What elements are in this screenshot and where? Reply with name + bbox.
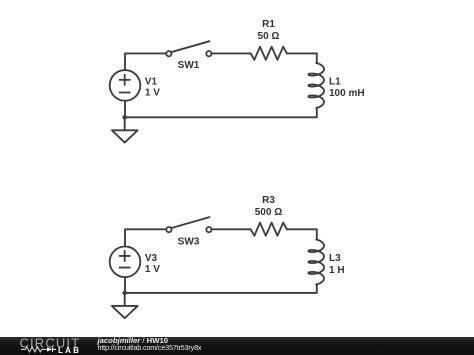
inductor L1 (308, 63, 324, 108)
node: junction dot circuit 2 (122, 291, 127, 296)
switch SW3 pole (166, 227, 171, 232)
ground circuit 2 (112, 306, 138, 318)
wire: junction to ground (124, 117, 126, 130)
inductor L3 (308, 240, 324, 285)
wire: L1 to bottom rail (125, 108, 317, 117)
wire: top-left rail circuit 1 (125, 53, 166, 70)
wire: L3 to bottom rail (125, 285, 317, 293)
svg-text:R3: R3 (262, 195, 275, 206)
svg-text:1 V: 1 V (145, 87, 160, 98)
ground circuit 1 (112, 130, 138, 142)
footer bar (0, 337, 474, 355)
node: junction dot circuit 1 (122, 115, 127, 120)
CircuitLab logo (0, 337, 95, 355)
voltage source V3 (110, 246, 141, 277)
svg-text:L1: L1 (329, 77, 341, 88)
svg-text:V1: V1 (145, 76, 158, 87)
svg-text:LAB: LAB (58, 346, 81, 355)
wire: V3 bottom stub (124, 277, 126, 293)
voltage source V1 (110, 70, 141, 101)
switch SW3 throw (206, 227, 211, 232)
resistor R1 (251, 47, 287, 60)
svg-text:100 mH: 100 mH (329, 88, 365, 99)
svg-text:50 Ω: 50 Ω (258, 31, 280, 42)
svg-text:R1: R1 (262, 19, 275, 30)
svg-text:L3: L3 (329, 253, 341, 264)
wire: junction to ground (124, 293, 126, 306)
svg-text:V3: V3 (145, 253, 158, 264)
wire: R1 to top-right corner (287, 53, 317, 63)
svg-text:1 V: 1 V (145, 264, 160, 275)
wire: R3 to top-right corner (287, 229, 317, 239)
switch SW1 lever (171, 41, 210, 52)
wire: top-left rail circuit 2 (125, 229, 166, 246)
resistor R3 (251, 223, 287, 236)
wire: SW1 to R1 (212, 52, 251, 54)
wire: SW3 to R3 (212, 228, 251, 230)
svg-text:1 H: 1 H (329, 265, 345, 276)
svg-text:SW3: SW3 (178, 236, 200, 247)
svg-text:500 Ω: 500 Ω (255, 207, 282, 218)
svg-text:SW1: SW1 (178, 60, 200, 71)
logo wire+resistor squiggle (21, 347, 47, 352)
wire: V1 bottom stub (124, 101, 126, 117)
switch SW1 pole (166, 51, 171, 56)
footer title line (98, 338, 202, 352)
switch SW1 throw (206, 51, 211, 56)
switch SW3 lever (171, 217, 210, 228)
logo diode (47, 347, 52, 351)
